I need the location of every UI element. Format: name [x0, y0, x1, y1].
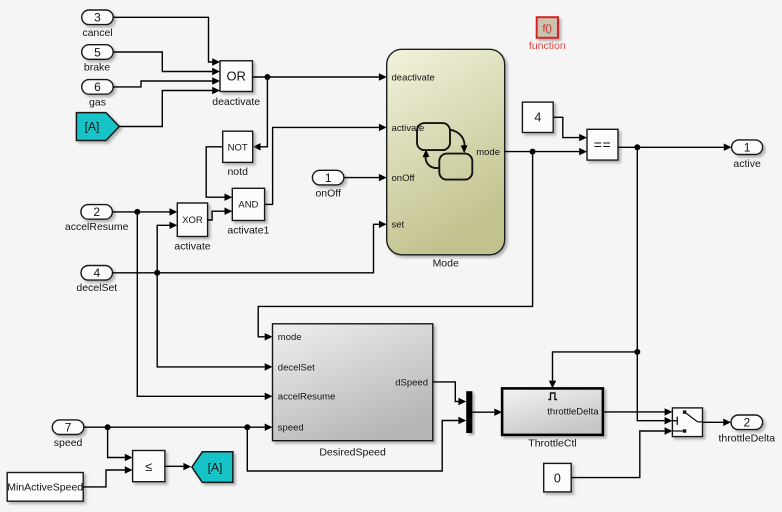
- svg-text:throttleDelta: throttleDelta: [547, 406, 599, 417]
- svg-text:onOff: onOff: [392, 173, 415, 184]
- svg-text:OR: OR: [226, 69, 246, 84]
- relational operator <=: [133, 451, 165, 482]
- svg-text:[A]: [A]: [208, 460, 223, 474]
- svg-text:brake: brake: [84, 61, 110, 73]
- wire accelResume to XOR input 1: [112, 208, 177, 215]
- svg-text:accelResume: accelResume: [65, 221, 129, 233]
- svg-text:AND: AND: [238, 200, 258, 211]
- svg-text:deactivate: deactivate: [392, 72, 435, 83]
- svg-text:3: 3: [94, 11, 101, 25]
- svg-text:2: 2: [743, 416, 750, 430]
- junction trigger branch: [634, 349, 640, 355]
- wire from [A] to OR input 4: [119, 87, 220, 127]
- inport 7 speed: [52, 420, 84, 449]
- svg-text:throttleDelta: throttleDelta: [718, 433, 775, 445]
- wire trigger branch to ThrottleCtl trigger: [549, 352, 638, 389]
- svg-text:speed: speed: [278, 423, 304, 434]
- svg-text:4: 4: [93, 266, 100, 280]
- wire onOff to Mode onOff input: [344, 174, 387, 181]
- wire accelResume to DesiredSpeed accelResume input: [137, 212, 272, 400]
- svg-text:[A]: [A]: [85, 120, 100, 134]
- wire constant 4 to == input 1: [553, 117, 587, 141]
- wire decelSet to DesiredSpeed decelSet input: [157, 273, 272, 371]
- junction decelSet: [154, 270, 160, 276]
- chart transition state1 to state2: [451, 130, 468, 154]
- logic OR deactivate: [212, 61, 260, 108]
- junction OR output: [264, 74, 270, 80]
- svg-text:DesiredSpeed: DesiredSpeed: [319, 447, 386, 459]
- wire <= to goto [A]: [165, 463, 191, 470]
- subsystem DesiredSpeed: [273, 324, 433, 459]
- wire mux to ThrottleCtl input: [472, 409, 502, 416]
- svg-text:1: 1: [744, 141, 751, 155]
- svg-text:NOT: NOT: [228, 142, 248, 153]
- wire speed to mux input 2: [247, 417, 466, 471]
- svg-text:4: 4: [534, 111, 541, 125]
- svg-text:mode: mode: [476, 147, 500, 158]
- chart Mode: [387, 49, 505, 269]
- inport 4 decelSet: [76, 266, 117, 295]
- junction == output: [634, 144, 640, 150]
- wire junction to NOT input (right side): [253, 77, 268, 151]
- svg-text:decelSet: decelSet: [278, 362, 315, 373]
- wire OR output to Mode deactivate input: [253, 73, 387, 80]
- wire speed to DesiredSpeed speed input: [84, 424, 273, 431]
- subsystem ThrottleCtl: [502, 388, 603, 449]
- svg-text:0: 0: [554, 472, 561, 486]
- svg-text:f(): f(): [543, 24, 552, 35]
- svg-text:deactivate: deactivate: [212, 96, 260, 108]
- svg-text:set: set: [392, 220, 405, 231]
- inport 5 brake: [82, 45, 114, 74]
- junction speed 2: [244, 424, 250, 430]
- svg-text:accelResume: accelResume: [278, 392, 336, 403]
- svg-text:mode: mode: [278, 332, 302, 343]
- chart transition state2 to state1: [423, 150, 440, 169]
- svg-text:dSpeed: dSpeed: [395, 377, 428, 388]
- function block f(): [529, 17, 566, 52]
- svg-text:function: function: [529, 40, 566, 52]
- from block [A]: [76, 113, 119, 141]
- junction accelResume: [134, 209, 140, 215]
- svg-text:≤: ≤: [145, 459, 152, 474]
- wire == output to outport active: [618, 144, 732, 151]
- logic XOR activate: [174, 203, 210, 252]
- wire cancel to OR input 1: [113, 17, 220, 65]
- svg-text:==: ==: [594, 136, 612, 152]
- wire AND output to Mode activate input: [265, 124, 387, 205]
- switch block: [672, 408, 702, 437]
- svg-text:7: 7: [65, 421, 72, 435]
- wire constant 0 to switch input 3: [571, 427, 672, 477]
- inport 3 cancel: [82, 10, 114, 39]
- wire switch to outport throttleDelta: [703, 419, 732, 426]
- wire gas to OR input 3: [113, 77, 220, 87]
- wire MinActiveSpeed to relational input 2: [83, 466, 132, 487]
- junction speed 1: [105, 424, 111, 430]
- inport 6 gas: [82, 80, 114, 109]
- wire dSpeed to mux input 1: [433, 382, 466, 405]
- svg-text:ThrottleCtl: ThrottleCtl: [528, 437, 576, 449]
- junction mode output: [530, 149, 536, 155]
- wire mode output to == input 2: [505, 148, 587, 155]
- compare block ==: [587, 129, 618, 160]
- wire mode to DesiredSpeed mode input: [258, 152, 532, 341]
- wire speed to relational input 1: [108, 427, 133, 461]
- chart state 1: [417, 123, 450, 150]
- svg-text:onOff: onOff: [315, 188, 341, 200]
- wire brake to OR input 2: [113, 52, 220, 75]
- svg-text:2: 2: [93, 205, 100, 219]
- svg-text:cancel: cancel: [82, 27, 112, 39]
- svg-text:speed: speed: [54, 437, 83, 449]
- logic NOT notd: [223, 131, 253, 178]
- svg-text:XOR: XOR: [182, 215, 203, 226]
- constant MinActiveSpeed: [7, 473, 83, 502]
- wire ThrottleCtl output to switch input 1: [603, 408, 673, 415]
- outport 2 throttleDelta: [718, 415, 775, 445]
- wire decelSet to Mode set input: [113, 221, 387, 273]
- inport 2 accelResume: [65, 205, 129, 234]
- svg-text:Mode: Mode: [433, 258, 459, 270]
- logic AND activate1: [227, 188, 269, 236]
- wire NOT output to AND input 1: [206, 147, 232, 201]
- svg-text:active: active: [733, 158, 761, 170]
- constant 0: [544, 463, 572, 492]
- svg-text:1: 1: [325, 171, 332, 185]
- outport 1 active: [732, 140, 763, 170]
- wire decelSet to XOR input 2: [157, 222, 177, 273]
- svg-text:activate: activate: [174, 240, 210, 252]
- wire XOR output to AND input 2: [208, 208, 233, 221]
- svg-text:MinActiveSpeed: MinActiveSpeed: [7, 482, 83, 494]
- mux: [466, 391, 472, 433]
- svg-text:decelSet: decelSet: [76, 282, 117, 294]
- svg-text:5: 5: [94, 45, 101, 59]
- svg-text:activate1: activate1: [227, 224, 269, 236]
- constant 4: [522, 102, 553, 132]
- svg-text:6: 6: [94, 80, 101, 94]
- goto block [A]: [192, 452, 233, 483]
- svg-text:notd: notd: [227, 166, 248, 178]
- wire == output down to switch control input: [637, 147, 672, 424]
- chart state 2: [439, 154, 472, 180]
- inport 1 onOff: [312, 170, 344, 199]
- svg-text:gas: gas: [89, 96, 106, 108]
